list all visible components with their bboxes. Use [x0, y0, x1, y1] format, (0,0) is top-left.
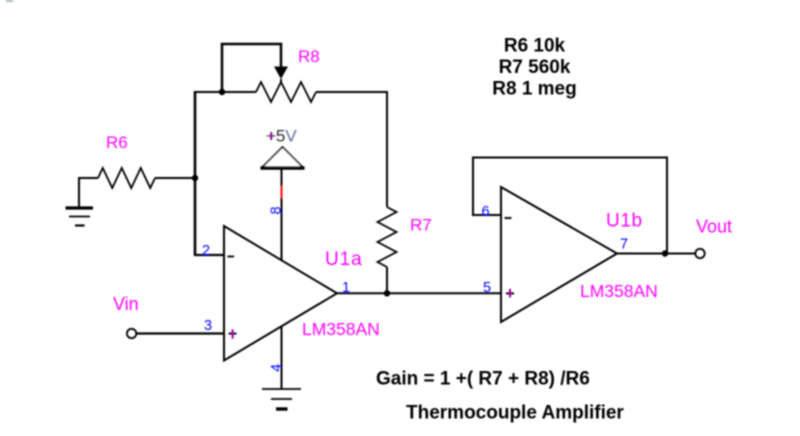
op-amp U1a	[224, 226, 337, 361]
svg-text:LM358AN: LM358AN	[580, 281, 658, 301]
terminal Vout	[695, 249, 704, 258]
wire: pin 4	[281, 326, 283, 389]
svg-text:R8: R8	[298, 47, 320, 66]
plus sign pin5	[506, 292, 514, 294]
minus sign pin2	[228, 256, 235, 258]
svg-text:R6 10k: R6 10k	[504, 36, 566, 57]
wire: node to U1b pin 5	[387, 292, 501, 294]
pin 8 red segment	[281, 186, 283, 200]
wire: pin2 lead	[195, 254, 224, 256]
wire: R8 top loop	[222, 44, 281, 92]
resistor R6	[98, 168, 155, 188]
svg-text:Vout: Vout	[696, 217, 732, 237]
svg-text:R8 1 meg: R8 1 meg	[492, 79, 576, 100]
wire: R6 right lead	[155, 177, 195, 179]
minus sign pin6	[505, 217, 512, 219]
svg-text:Gain = 1 +( R7 + R8) /R6: Gain = 1 +( R7 + R8) /R6	[376, 369, 590, 390]
wiper arrow of R8	[274, 67, 288, 80]
plus sign pin3	[229, 333, 237, 335]
wire: pin 8 upper	[281, 168, 283, 186]
wire: R6 left lead	[79, 178, 98, 207]
wire: R8 left lead to junction	[222, 91, 256, 93]
svg-text:3: 3	[204, 318, 212, 334]
wire: left feedback rail	[194, 91, 197, 256]
svg-text:8: 8	[269, 206, 285, 214]
svg-text:4: 4	[269, 364, 285, 372]
resistor R7	[378, 207, 397, 267]
wire: pin 8 lower	[281, 198, 283, 260]
resistor R8	[256, 82, 316, 102]
wire: U1a output pin 1	[337, 292, 387, 294]
svg-text:2: 2	[202, 243, 210, 259]
ground (R6)	[66, 208, 94, 226]
svg-text:U1b: U1b	[606, 211, 643, 232]
junction dot at U1a output	[384, 290, 390, 296]
screen artifact top-left	[6, 0, 13, 2]
svg-text:R7 560k: R7 560k	[499, 57, 571, 78]
svg-text:7: 7	[620, 237, 628, 253]
wire: junction to left rail	[195, 91, 222, 93]
power +5V symbol	[262, 147, 303, 168]
wire: U1b feedback loop pin6	[473, 158, 667, 254]
svg-text:U1a: U1a	[325, 249, 363, 270]
wire: R8 to R7 top	[316, 92, 387, 207]
junction dot at U1b output	[662, 250, 668, 256]
svg-text:Thermocouple Amplifier: Thermocouple Amplifier	[406, 403, 624, 424]
wire: arrow stub	[280, 79, 282, 83]
svg-text:Vin: Vin	[113, 294, 139, 314]
svg-text:LM358AN: LM358AN	[302, 319, 380, 339]
svg-text:R6: R6	[106, 133, 128, 152]
junction dot R6/rail	[192, 175, 198, 181]
wire: R7 bottom lead	[386, 267, 388, 293]
wire: U1b output pin 7	[617, 253, 696, 255]
svg-text:5: 5	[483, 280, 491, 296]
svg-text:1: 1	[342, 280, 350, 296]
terminal Vin	[127, 329, 136, 338]
junction dot at R8/loop	[219, 89, 225, 95]
svg-text:R7: R7	[410, 216, 432, 235]
svg-text:6: 6	[482, 204, 490, 220]
op-amp U1b	[501, 187, 617, 322]
wire: Vin to pin3	[136, 332, 224, 334]
ground (pin 4)	[262, 389, 301, 409]
